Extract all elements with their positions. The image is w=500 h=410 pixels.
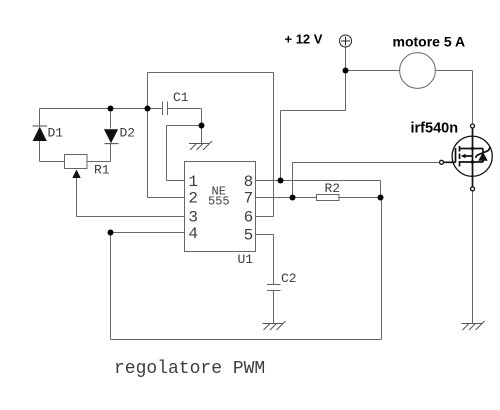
svg-text:555: 555 [208,195,230,209]
svg-text:5: 5 [244,227,254,245]
svg-text:8: 8 [244,173,254,191]
svg-text:regolatore PWM: regolatore PWM [114,359,265,379]
svg-text:irf540n: irf540n [411,121,459,137]
svg-text:C2: C2 [281,271,297,286]
svg-text:D2: D2 [120,126,136,141]
svg-text:motore 5 A: motore 5 A [393,34,466,50]
svg-text:+ 12 V: + 12 V [285,32,323,47]
svg-text:6: 6 [244,209,254,227]
svg-text:C1: C1 [173,90,189,105]
svg-text:R1: R1 [94,163,110,178]
svg-text:R2: R2 [325,181,341,196]
svg-text:7: 7 [244,190,254,208]
svg-text:1: 1 [188,173,198,191]
svg-text:4: 4 [188,225,198,243]
svg-text:U1: U1 [238,252,254,267]
svg-text:3: 3 [188,209,198,227]
svg-text:2: 2 [188,190,198,208]
svg-text:D1: D1 [48,126,64,141]
